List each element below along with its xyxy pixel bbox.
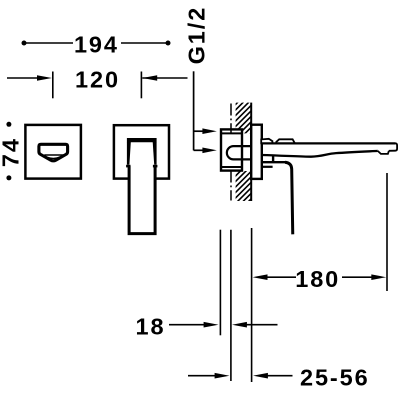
svg-text:194: 194 [74,32,119,58]
svg-text:25-56: 25-56 [300,365,370,391]
svg-text:G1/2: G1/2 [184,6,210,65]
svg-text:74: 74 [0,137,24,167]
svg-text:18: 18 [136,313,166,339]
svg-text:120: 120 [75,67,120,93]
svg-text:180: 180 [295,266,340,292]
